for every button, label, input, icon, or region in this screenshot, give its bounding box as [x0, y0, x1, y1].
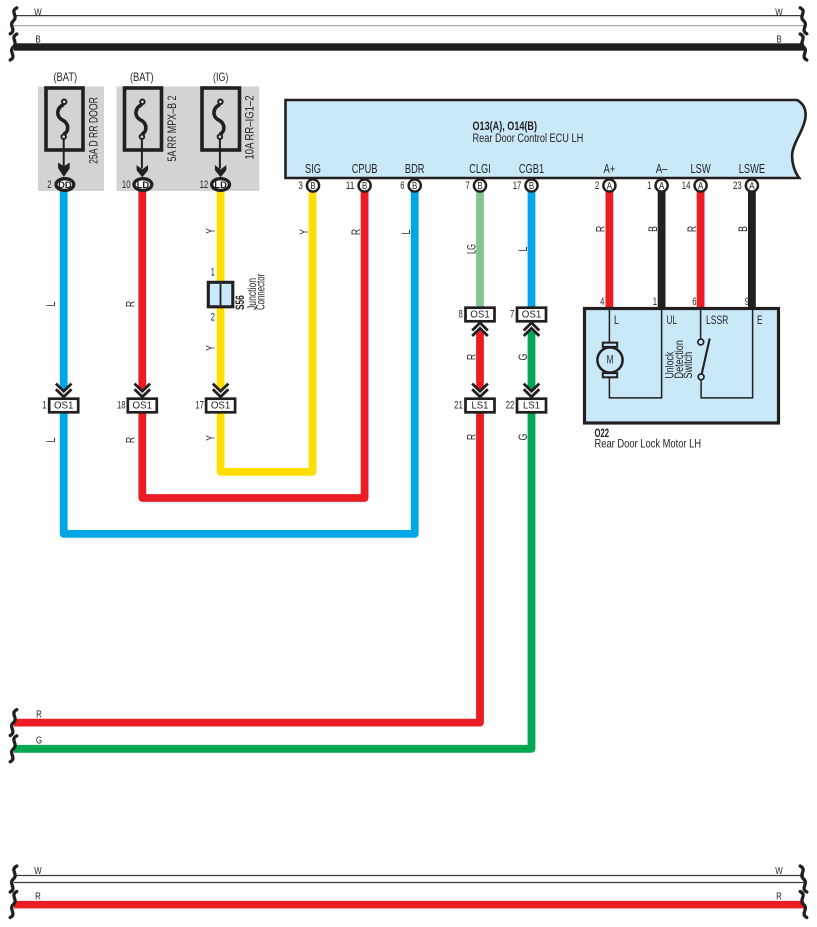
svg-text:R: R — [36, 710, 42, 721]
svg-text:(BAT): (BAT) — [130, 71, 154, 84]
svg-text:OS1: OS1 — [522, 310, 542, 321]
svg-text:17: 17 — [195, 399, 204, 411]
svg-text:2: 2 — [211, 311, 215, 323]
svg-text:9: 9 — [745, 296, 749, 308]
junction connector S56 — [208, 282, 233, 307]
chevron into 17 OS1 — [213, 384, 229, 397]
wire R (red) V-tip at chevron above LS1 pin 21 — [476, 387, 484, 391]
arrow into pin 10 — [137, 165, 148, 177]
svg-text:14: 14 — [682, 180, 691, 192]
connector OS1 pin 18 — [128, 399, 157, 413]
chevron out of 7 OS1 (upward) — [524, 323, 540, 336]
svg-text:4: 4 — [600, 296, 604, 308]
arrow into pin 2 — [58, 163, 70, 178]
chevron into 1 OS1 — [56, 384, 72, 397]
motor unit O22 box — [585, 309, 779, 424]
wire Y (yellow): fuse3 pin 12 LD via S56 to connector OS1 pin 17 — [217, 190, 225, 388]
svg-text:17: 17 — [513, 180, 522, 192]
svg-text:A–: A– — [656, 161, 668, 176]
pin 11 B (CPUB) — [346, 179, 371, 192]
svg-text:Rear Door Lock Motor LH: Rear Door Lock Motor LH — [595, 437, 702, 451]
wire B (black): ECU LSWE pin 23 to O22 pin 9 — [748, 190, 756, 308]
svg-text:R: R — [125, 437, 138, 443]
chevron into 22 LS1 — [524, 384, 540, 397]
svg-text:Y: Y — [205, 228, 218, 234]
wire R (red): ECU LSW pin 14 to O22 pin 6 — [697, 190, 705, 308]
chevron into 18 OS1 — [135, 384, 151, 397]
pin 14 A (LSW) — [682, 179, 707, 192]
connector LS1 pin 21 — [466, 399, 495, 413]
svg-text:L: L — [45, 437, 58, 442]
arrow into pin 12 — [215, 165, 226, 177]
svg-text:23: 23 — [733, 180, 742, 192]
internal wire: motor to UL — [609, 310, 661, 398]
svg-text:R: R — [595, 226, 608, 232]
svg-text:A: A — [659, 181, 664, 192]
svg-text:OS1: OS1 — [133, 400, 153, 411]
svg-text:W: W — [34, 866, 42, 877]
wire R (red): chevron to LS1 pin 21 — [476, 331, 484, 387]
torn end right of wire W — [800, 8, 807, 34]
svg-text:LD: LD — [137, 179, 150, 190]
svg-text:2: 2 — [595, 180, 599, 192]
svg-text:LS1: LS1 — [472, 400, 489, 411]
wire R (red): fuse2 pin 10 LD to connector OS1 pin 18 — [138, 190, 146, 388]
svg-text:A+: A+ — [604, 161, 616, 176]
svg-text:LD: LD — [214, 179, 227, 190]
svg-text:Rear Door Control ECU LH: Rear Door Control ECU LH — [473, 131, 584, 145]
svg-text:DD: DD — [58, 179, 72, 190]
svg-text:B: B — [737, 226, 750, 232]
svg-text:R: R — [686, 226, 699, 232]
wire L (blue) V-tip at chevron — [60, 387, 68, 391]
connector OS1 pin 17 — [206, 399, 235, 413]
wire G (green): chevron to LS1 pin 22 — [528, 331, 536, 387]
svg-text:L: L — [517, 246, 530, 251]
svg-text:OS1: OS1 — [470, 310, 490, 321]
svg-text:B: B — [412, 181, 417, 192]
svg-text:10A RR–IG1–2: 10A RR–IG1–2 — [244, 96, 257, 160]
unlock detection switch SW — [698, 339, 710, 380]
svg-text:11: 11 — [346, 180, 355, 192]
svg-text:R: R — [465, 354, 478, 360]
svg-text:8: 8 — [459, 309, 463, 321]
svg-text:B: B — [362, 181, 367, 192]
svg-text:A: A — [698, 181, 703, 192]
internal wire: switch to E — [701, 310, 753, 398]
svg-text:22: 22 — [506, 399, 515, 411]
svg-text:W: W — [775, 866, 783, 877]
svg-text:UL: UL — [667, 314, 678, 327]
svg-text:R: R — [125, 301, 138, 307]
svg-text:A: A — [749, 181, 754, 192]
torn end left of wire G (lower) — [10, 736, 17, 762]
svg-text:Y: Y — [205, 345, 218, 351]
svg-text:CLGI: CLGI — [469, 161, 491, 176]
torn end left of wire B — [10, 34, 17, 60]
svg-text:7: 7 — [510, 309, 514, 321]
svg-text:L: L — [45, 301, 58, 306]
wire Y (yellow) V-tip at chevron — [217, 387, 225, 391]
pin 6 B (BDR) — [400, 179, 421, 192]
wire G (green) up V-tip at chevron below OS1 pin 7 — [528, 327, 536, 331]
wire R (red) up V-tip at chevron below OS1 pin 8 — [476, 327, 484, 331]
torn end right of bottom wire W — [800, 866, 807, 892]
svg-text:LSSR: LSSR — [706, 314, 728, 327]
svg-text:21: 21 — [454, 399, 463, 411]
svg-text:Switch: Switch — [682, 352, 695, 379]
svg-text:1: 1 — [42, 399, 46, 411]
internal wire: pin 4 to motor — [608, 310, 610, 342]
svg-text:BDR: BDR — [405, 161, 425, 176]
wire L (blue): ECU CGB1 pin 17 to connector OS1 pin 7 — [528, 190, 536, 307]
pin 7 B (CLGI) — [466, 179, 487, 192]
wire L (blue): fuse1 pin 2 DD to connector OS1 pin 1 — [60, 190, 68, 388]
svg-text:LS1: LS1 — [523, 400, 540, 411]
svg-text:Connector: Connector — [255, 274, 268, 310]
wire B (top bus, black) — [14, 43, 804, 50]
svg-text:18: 18 — [117, 399, 126, 411]
svg-text:B: B — [529, 181, 534, 192]
svg-text:R: R — [776, 892, 782, 903]
svg-text:1: 1 — [211, 267, 215, 279]
svg-text:CGB1: CGB1 — [519, 161, 544, 176]
svg-text:OS1: OS1 — [54, 400, 74, 411]
connector pin 10 LD — [134, 179, 152, 191]
fuse F2 5A RR MPX-B 2 — [125, 88, 162, 169]
fuse F1 25A D RR DOOR — [46, 88, 83, 169]
wire B (black): ECU A- pin 1 to O22 pin 1 — [658, 190, 666, 308]
wire W (bottom bus, white wire outline) — [14, 876, 804, 883]
wire R (red): LS1 pin 21 to left torn end — [14, 412, 480, 723]
wire R (red): OS1 pin 18 to ECU CPUB pin 11 — [142, 190, 364, 498]
wire Y (yellow): OS1 pin 17 to ECU SIG pin 3 — [221, 190, 313, 472]
internal wire: pin 6 to switch — [700, 310, 702, 339]
connector pin 12 LD — [212, 179, 230, 191]
svg-text:B: B — [477, 181, 482, 192]
svg-text:(BAT): (BAT) — [53, 71, 77, 84]
svg-text:L: L — [614, 314, 619, 327]
svg-text:CPUB: CPUB — [352, 161, 378, 176]
svg-text:G: G — [517, 354, 530, 361]
pin 17 B (CGB1) — [513, 179, 538, 192]
svg-text:R: R — [35, 892, 41, 903]
svg-text:G: G — [36, 736, 42, 747]
svg-text:10: 10 — [122, 179, 131, 191]
wire R (red): ECU A+ pin 2 to O22 pin 4 — [606, 190, 614, 308]
svg-text:SIG: SIG — [305, 161, 321, 176]
pin 23 A (LSWE) — [733, 179, 758, 192]
wire R (bottom bus, red) — [14, 901, 804, 909]
svg-text:R: R — [465, 434, 478, 440]
torn end right of wire B — [800, 34, 807, 60]
svg-text:7: 7 — [466, 180, 470, 192]
svg-text:L: L — [400, 229, 413, 234]
svg-text:A: A — [607, 181, 612, 192]
svg-text:G: G — [517, 434, 530, 441]
wire LG (light green): ECU CLGI pin 7 to connector OS1 pin 8 — [476, 190, 484, 307]
torn end right of bottom wire R — [800, 892, 807, 918]
connector OS1 pin 8 — [466, 308, 495, 322]
connector OS1 pin 7 — [517, 308, 546, 322]
svg-text:LSW: LSW — [691, 161, 712, 176]
svg-text:1: 1 — [647, 180, 651, 192]
torn end left of wire R (lower) — [10, 710, 17, 736]
pin 3 B (SIG) — [299, 179, 320, 192]
svg-text:1: 1 — [653, 296, 657, 308]
svg-text:B: B — [310, 181, 315, 192]
chevron into 21 LS1 — [472, 384, 488, 397]
torn end left of wire W — [10, 8, 17, 34]
connector OS1 pin 1 — [49, 399, 78, 413]
connector LS1 pin 22 — [517, 399, 546, 413]
wire L (blue): OS1 pin 1 to ECU BDR pin 6 — [64, 190, 415, 534]
torn end left of bottom wire W — [10, 866, 17, 892]
motor M symbol — [597, 343, 622, 378]
wire G (green) V-tip at chevron above LS1 pin 22 — [528, 387, 536, 391]
svg-text:(IG): (IG) — [213, 71, 229, 84]
wire G (green): LS1 pin 22 to left torn end — [14, 412, 532, 749]
svg-text:5A RR MPX–B 2: 5A RR MPX–B 2 — [166, 96, 179, 162]
junction block shading (fuses 2 and 3) — [117, 87, 260, 192]
svg-text:12: 12 — [200, 179, 209, 191]
svg-text:OS1: OS1 — [211, 400, 231, 411]
svg-text:Y: Y — [205, 435, 218, 441]
svg-text:E: E — [757, 314, 763, 327]
junction block shading (fuse 1) — [38, 87, 104, 192]
svg-text:2: 2 — [47, 179, 51, 191]
wire W (top bus, white wire outline) — [14, 16, 804, 26]
svg-text:LG: LG — [465, 244, 478, 254]
svg-text:LSWE: LSWE — [739, 161, 766, 176]
pin 1 A (A-) — [647, 179, 668, 192]
svg-text:W: W — [775, 7, 783, 18]
pin 2 A (A+) — [595, 179, 616, 192]
ECU O13(A) O14(B) Rear Door Control ECU LH — [286, 100, 806, 178]
svg-text:25A D RR DOOR: 25A D RR DOOR — [88, 97, 101, 164]
svg-text:6: 6 — [400, 180, 404, 192]
svg-text:W: W — [34, 7, 42, 18]
svg-text:6: 6 — [692, 296, 696, 308]
svg-text:B: B — [647, 226, 660, 232]
svg-text:3: 3 — [299, 180, 303, 192]
fuse F3 10A RR-IG1-2 — [202, 88, 240, 169]
chevron out of 8 OS1 (upward) — [472, 323, 488, 336]
svg-text:B: B — [776, 34, 781, 45]
wire R (red) V-tip at chevron — [138, 387, 146, 391]
svg-text:B: B — [35, 34, 40, 45]
torn end left of bottom wire R — [10, 892, 17, 918]
connector pin 2 DD — [56, 179, 74, 191]
svg-text:R: R — [350, 229, 363, 235]
svg-text:M: M — [607, 354, 614, 367]
svg-text:Y: Y — [298, 229, 311, 235]
